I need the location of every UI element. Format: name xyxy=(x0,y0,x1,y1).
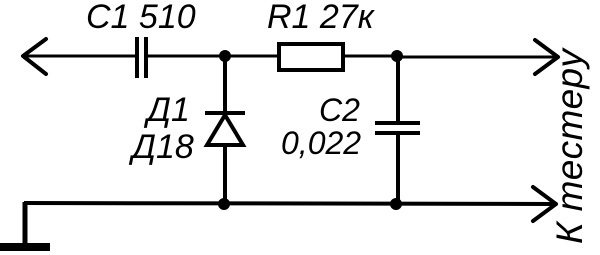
svg-text:Д1: Д1 xyxy=(143,91,190,129)
svg-text:0,022: 0,022 xyxy=(281,125,361,161)
svg-text:R1 27к: R1 27к xyxy=(267,0,376,36)
wire: C2 branch upper xyxy=(396,57,400,123)
wire: top rail C1 to node A xyxy=(148,55,226,58)
capacitor C1 xyxy=(137,37,146,78)
node D (junction dot bottom-right) xyxy=(390,198,402,210)
wire: diode branch lower xyxy=(223,145,227,204)
diode D1 xyxy=(205,113,245,145)
arrow: top right to tester xyxy=(535,40,558,74)
svg-text:Д18: Д18 xyxy=(128,128,194,166)
svg-text:C1 510: C1 510 xyxy=(86,0,196,36)
capacitor C2 xyxy=(375,123,420,133)
arrow: left output arrowhead xyxy=(23,39,46,74)
wire: top rail node B to right arrow xyxy=(397,56,556,59)
node C (junction dot bottom-left) xyxy=(218,198,230,210)
svg-text:C2: C2 xyxy=(319,92,360,128)
wire: diode branch upper xyxy=(223,56,227,112)
node B (junction dot top-right) xyxy=(391,50,403,62)
svg-text:К mecmepy: К mecmepy xyxy=(549,47,590,244)
wire: C2 branch lower xyxy=(396,133,400,204)
wire: bottom rail xyxy=(24,203,554,204)
wire: ground drop xyxy=(23,202,28,244)
wire: top rail node A to R1 xyxy=(225,55,278,58)
wire: top rail R1 to node B xyxy=(343,55,398,58)
node A (junction dot top-left) xyxy=(219,50,231,62)
arrow: bottom right to tester xyxy=(533,187,556,221)
resistor R1 xyxy=(279,44,343,70)
ground xyxy=(0,243,50,251)
wire: top rail left segment (arrow tip to C1 left plate) xyxy=(23,55,135,58)
